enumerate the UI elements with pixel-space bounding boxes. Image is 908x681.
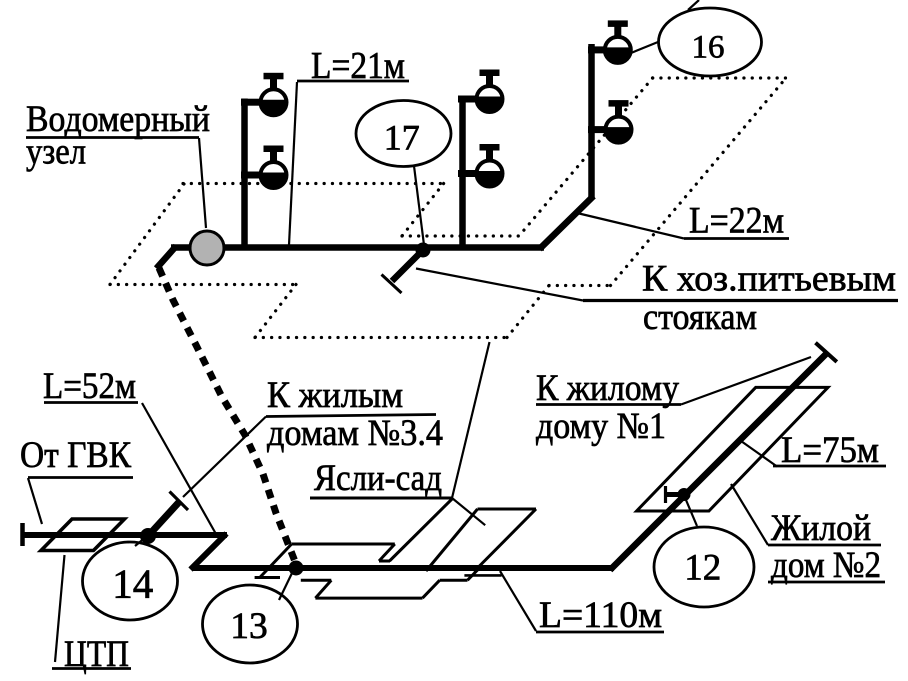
branch cut tick bbox=[382, 275, 402, 294]
building outline dotted: inner step diagonal bbox=[402, 184, 444, 237]
branch pipe at node 14 bbox=[148, 501, 180, 536]
wire: upper pipe left end diagonal stub bbox=[159, 249, 175, 267]
valve stub V5 bbox=[588, 46, 620, 53]
building outline: lower block top-right edge bbox=[440, 579, 468, 582]
building outline: school cluster notch diagonal bbox=[390, 498, 454, 561]
wire: lower main pipe from GVK bbox=[23, 532, 228, 538]
branch tick at node 12 bbox=[664, 486, 667, 503]
wire: lower pipe Z jog diagonal bbox=[191, 534, 227, 570]
wire: lower main pipe left tick bbox=[20, 523, 25, 546]
svg-text:От ГВК: От ГВК bbox=[20, 435, 131, 476]
pipe end tick (to house 1) bbox=[816, 343, 837, 362]
svg-text:L=22м: L=22м bbox=[689, 201, 784, 242]
wire: diagonal pipe to house 1 bbox=[610, 354, 826, 570]
svg-text:13: 13 bbox=[230, 606, 268, 647]
building outline: kindergarten right edge bbox=[474, 509, 536, 572]
callout ellipse 16 bbox=[659, 8, 762, 76]
building outline: lower block far right diag bbox=[468, 569, 480, 581]
wire: lower main pipe y=568 bbox=[192, 565, 614, 571]
building outline: kindergarten top edge bbox=[478, 508, 537, 511]
cropped leader above 16 bbox=[688, 0, 699, 10]
riser R3 vertical bbox=[588, 44, 595, 198]
leader to 16 bbox=[631, 42, 658, 53]
building outline: lower block right diag bbox=[423, 580, 440, 598]
svg-text:стоякам: стоякам bbox=[643, 297, 757, 338]
junction dot node 12 bbox=[678, 488, 691, 501]
valve V5 bbox=[604, 20, 632, 63]
svg-text:К жилым: К жилым bbox=[267, 375, 403, 416]
callout ellipse 17 bbox=[356, 101, 451, 167]
valve V1 bbox=[259, 73, 287, 116]
CTP rhombus bbox=[41, 519, 125, 551]
building outline dotted: top-right block top edge bbox=[653, 76, 786, 79]
building outline: lower block top-left edge bbox=[301, 579, 332, 582]
branch cut tick at node 14 bbox=[170, 492, 189, 511]
valve stub V4 bbox=[458, 170, 490, 177]
svg-text:Ясли-сад: Ясли-сад bbox=[314, 458, 442, 499]
building outline: house 2 parallelogram bbox=[637, 387, 828, 511]
building outline: small block bottom edge bbox=[255, 576, 280, 579]
building outline dotted: bottom edge y=285.5 right bbox=[549, 284, 611, 287]
water meter node gray circle bbox=[190, 231, 224, 265]
building outline: kindergarten bottom fragment bbox=[464, 574, 501, 577]
building outline: school cluster top edge bbox=[310, 497, 453, 500]
wire: thick dashed pipe to CTP bbox=[159, 268, 296, 564]
svg-text:14: 14 bbox=[112, 561, 153, 607]
building outline dotted: step up diagonal right bbox=[507, 286, 549, 338]
junction dot node 13 bbox=[289, 561, 304, 576]
building outline dotted: long right diagonal up bbox=[611, 78, 787, 286]
branch pipe to drinking risers bbox=[392, 250, 423, 281]
svg-text:17: 17 bbox=[384, 118, 420, 158]
building outline: lower block left diag bbox=[315, 580, 331, 598]
callout ellipse 14 bbox=[83, 542, 178, 620]
svg-text:16: 16 bbox=[692, 30, 725, 66]
svg-text:дому №1: дому №1 bbox=[536, 406, 666, 447]
leader from 17 bbox=[414, 166, 424, 245]
riser R2 bbox=[459, 96, 466, 248]
building outline: lower block bottom edge bbox=[315, 597, 422, 600]
leader from 14 bbox=[135, 537, 146, 546]
callout ellipse 12 bbox=[654, 527, 754, 607]
building outline dotted: step down diagonal bbox=[255, 285, 296, 338]
riser R3 diagonal to pipe bbox=[540, 196, 594, 249]
valve V2 bbox=[259, 146, 287, 189]
valve stub V1 bbox=[241, 99, 273, 106]
svg-text:12: 12 bbox=[684, 548, 721, 589]
svg-text:L=52м: L=52м bbox=[43, 366, 136, 407]
valve stub V2 bbox=[241, 172, 273, 179]
building outline: small block notch bottom bbox=[379, 560, 390, 563]
building outline: small block left diag bbox=[260, 544, 292, 578]
valve V3 bbox=[475, 70, 503, 113]
svg-text:домам №3.4: домам №3.4 bbox=[267, 413, 443, 454]
building outline dotted: bottom edge y=285 left bbox=[110, 283, 296, 286]
svg-text:Жилой: Жилой bbox=[771, 508, 871, 549]
leader from 12 bbox=[686, 500, 697, 526]
wire: main upper pipe horizontal bbox=[171, 244, 544, 251]
junction dot node 14 bbox=[140, 528, 156, 544]
valve V6 bbox=[604, 100, 632, 143]
valve stub V3 bbox=[458, 96, 490, 103]
building outline dotted: bottom edge y=337.5 bbox=[255, 336, 507, 339]
building outline: small block right diag bbox=[379, 544, 395, 561]
valve V4 bbox=[475, 144, 503, 187]
valve stub V6 bbox=[588, 126, 620, 133]
svg-text:К хоз.питьевым: К хоз.питьевым bbox=[642, 259, 896, 300]
branch stub at node 12 bbox=[666, 492, 685, 497]
building outline dotted: top-left block top edge bbox=[183, 182, 444, 185]
building outline: kindergarten left edge bbox=[426, 509, 478, 571]
leader from 13 bbox=[279, 571, 293, 600]
building outline dotted: inner horizontal y=236 bbox=[402, 234, 519, 237]
callout ellipse 13 bbox=[203, 585, 298, 663]
riser R1 bbox=[241, 99, 248, 248]
svg-text:дом №2: дом №2 bbox=[771, 545, 881, 586]
svg-text:К жилому: К жилому bbox=[536, 368, 679, 409]
building outline dotted: inner diagonal bbox=[519, 78, 653, 236]
junction dot at node 17 bbox=[416, 243, 431, 258]
building outline: small block top edge bbox=[292, 543, 395, 546]
building outline dotted: top-left block left edge bbox=[110, 184, 184, 285]
svg-text:L=110м: L=110м bbox=[539, 595, 662, 636]
